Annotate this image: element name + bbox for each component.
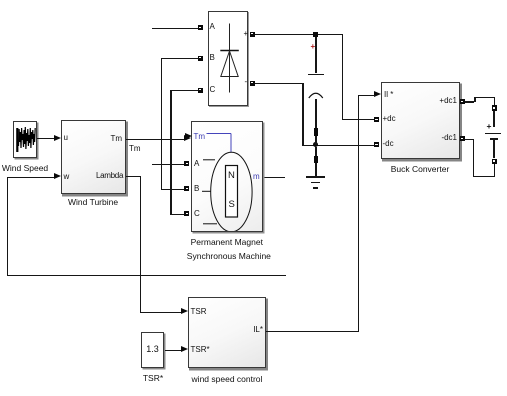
wire u input: [37, 138, 55, 139]
wire IL* out: [266, 331, 359, 332]
wire cap to junction: [315, 136, 317, 145]
wire B horizontal top: [161, 58, 198, 59]
battery bottom pad: [492, 159, 497, 165]
arrowhead u: [54, 135, 61, 141]
capacitor bottom port: [314, 128, 319, 136]
wire 1.3 to TSRstar: [165, 350, 182, 351]
wire IL* into Il port: [358, 95, 375, 96]
battery plus mark: [487, 122, 492, 131]
battery top lead: [493, 111, 495, 127]
wire B vertical: [161, 58, 162, 189]
pin label + rect: [244, 30, 249, 38]
wire w feedback horizontal into w: [7, 177, 55, 178]
pin label IL*: [240, 326, 263, 334]
diode symbol: [208, 11, 248, 105]
battery long plate: [485, 133, 501, 135]
wire Lambda out: [126, 176, 141, 177]
wire battery top horizontal: [474, 97, 494, 98]
wire feedback bottom horizontal: [7, 275, 287, 276]
port B PMSM: [184, 186, 189, 191]
wire minus rail into -dc: [302, 145, 374, 146]
label TSR* const: [132, 374, 174, 383]
capacitor bottom lead: [315, 99, 317, 128]
wire feedback vertical left: [7, 177, 8, 276]
label Tm wire: [129, 145, 141, 153]
label Wind Speed: [0, 164, 50, 173]
wire IL* vertical up: [358, 95, 359, 332]
wire plus rail into +dc: [342, 119, 375, 120]
label Synchronous Machine: [187, 252, 267, 261]
capacitor curved plate: [307, 87, 325, 100]
pin label Tm out: [98, 135, 122, 143]
ground bar 3: [313, 187, 318, 188]
pin label A PMSM: [194, 160, 199, 168]
block constant 1.3: [141, 332, 164, 368]
wire m output stub: [263, 177, 285, 178]
port A PMSM: [184, 161, 189, 166]
pin label +dc: [383, 115, 396, 123]
wire battery bottom horizontal: [473, 176, 495, 177]
capacitor plus mark red: [311, 43, 316, 51]
pin label - rect: [245, 78, 248, 86]
pin label m PMSM blue: [253, 173, 260, 181]
pin label Il*: [384, 91, 393, 99]
junction node plus rail: [313, 32, 318, 37]
wire minus rail vertical down: [302, 83, 303, 145]
pin label w: [64, 173, 70, 181]
block Buck Converter: [381, 82, 460, 159]
pin label C PMSM: [194, 210, 200, 218]
wire minus rail horizontal: [255, 83, 304, 84]
battery short plate: [490, 138, 499, 140]
label Wind Turbine: [68, 198, 118, 207]
pin label +dc1: [433, 97, 457, 105]
pin label C rect: [210, 86, 216, 94]
wire Tm: [126, 139, 184, 140]
junction node minus rail: [313, 142, 318, 147]
port -dc1: [460, 136, 465, 141]
pin label -dc1: [433, 134, 457, 142]
wire A stub PMSM: [152, 164, 186, 165]
label N magnet: [228, 171, 235, 181]
wire C to PMSM: [170, 214, 185, 215]
wire Lambda to TSR: [140, 312, 182, 313]
wire +dc1 vertical up: [474, 97, 475, 103]
label Permanent Magnet: [187, 238, 267, 247]
block rectifier universal bridge: [208, 11, 249, 107]
value 1.3: [141, 345, 164, 354]
block PMSM: [191, 121, 263, 232]
arrowhead w: [54, 173, 61, 179]
wire C vertical: [170, 90, 171, 215]
arrowhead Il port: [374, 91, 381, 97]
pin label A rect: [210, 23, 215, 31]
PMSM icon ellipse and magnet: [191, 121, 262, 231]
wire plus rail horizontal: [255, 34, 344, 35]
arrowhead TSR: [181, 308, 188, 314]
arrowhead TSRstar: [181, 346, 188, 352]
battery bottom lead: [493, 140, 495, 158]
label wind speed control: [191, 375, 263, 384]
wire +dc1 to battery seg1: [465, 101, 475, 102]
wire return into -dc1: [465, 139, 473, 140]
wire battery top down: [494, 97, 495, 106]
port A rect: [198, 25, 203, 30]
pin label B PMSM: [194, 185, 199, 193]
wire plus rail vertical down: [342, 34, 343, 120]
wire Lambda vertical: [140, 176, 141, 312]
pin label Lambda: [96, 172, 122, 180]
port C PMSM: [184, 211, 189, 216]
port B rect: [198, 56, 203, 61]
wire C horizontal top: [170, 90, 198, 91]
wire battery bottom down: [494, 164, 495, 176]
wire A stub: [152, 28, 198, 29]
ground lead lower: [315, 163, 317, 177]
pin label TSR: [191, 308, 207, 316]
capacitor C top lead: [315, 37, 317, 74]
source block Wind Speed: [13, 121, 37, 158]
arrowhead Tm into PMSM: [184, 135, 191, 141]
block Wind Turbine: [61, 120, 126, 194]
pin label Tm PMSM blue: [194, 133, 206, 141]
wire B to PMSM: [161, 189, 185, 190]
port + rect: [250, 32, 255, 37]
ground bar 2: [311, 182, 320, 183]
pin label u: [64, 134, 68, 142]
pin label TSR* in: [191, 346, 210, 354]
ground port: [314, 156, 319, 163]
port C rect: [198, 88, 203, 93]
capacitor top plate: [308, 74, 324, 76]
arrowhead Tm port PMSM: [185, 133, 192, 139]
ground lead: [315, 147, 317, 156]
port +dc1: [460, 99, 465, 104]
pin label B rect: [210, 54, 215, 62]
port -dc: [374, 142, 379, 147]
port +dc: [374, 117, 379, 122]
label S magnet: [229, 200, 235, 210]
block wind speed control: [188, 297, 267, 369]
label Buck Converter: [390, 165, 450, 174]
pin label -dc: [383, 140, 394, 148]
wire battery return vertical: [473, 139, 474, 176]
battery top pad: [492, 105, 497, 111]
ground bar 1: [306, 176, 324, 178]
port - rect: [250, 81, 255, 86]
